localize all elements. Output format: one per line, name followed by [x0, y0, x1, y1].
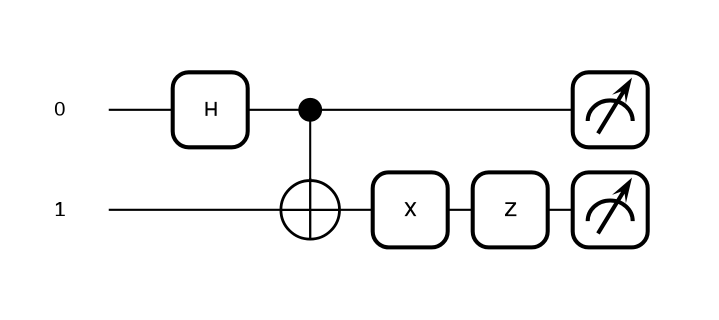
measurement M0 arrow — [597, 79, 631, 134]
CNOT target circle (qubit 1) — [281, 181, 340, 240]
wire label 1 — [56, 202, 65, 216]
wire qubit 0 — [109, 109, 610, 111]
gate H label — [206, 102, 217, 116]
CNOT target vertical bar — [309, 178, 311, 240]
CNOT control dot (qubit 0) — [298, 98, 322, 122]
measurement M1 arrow — [597, 179, 631, 234]
gate X (box) — [373, 172, 448, 247]
gate Z (box) — [473, 172, 548, 247]
measurement M1 gauge arc — [588, 200, 633, 221]
measurement M0 box (qubit 0) — [573, 72, 648, 147]
gate Z label — [505, 202, 516, 216]
CNOT control-target vertical wire — [309, 110, 311, 240]
measurement M0 gauge arc — [588, 100, 633, 121]
gate H (box) — [173, 72, 248, 147]
wire qubit 1 — [109, 209, 610, 211]
measurement M1 box (qubit 1) — [573, 172, 648, 247]
CNOT target horizontal bar — [280, 209, 340, 211]
gate X label — [405, 202, 417, 216]
wire label 0 — [55, 102, 65, 116]
